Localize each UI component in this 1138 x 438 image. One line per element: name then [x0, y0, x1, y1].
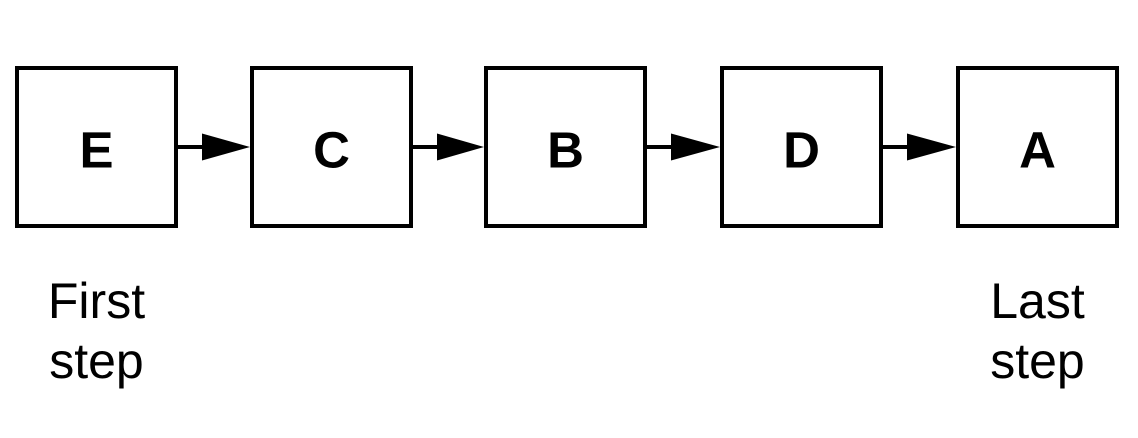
arrow B to D head	[671, 134, 720, 161]
arrow C to B wire	[413, 145, 440, 149]
node C box	[252, 68, 411, 226]
arrow D to A wire	[883, 145, 910, 149]
node B box	[486, 68, 645, 226]
svg-text:E: E	[79, 122, 113, 179]
arrow B to D wire	[647, 145, 674, 149]
node D box	[722, 68, 881, 226]
svg-text:step: step	[990, 333, 1085, 389]
arrow E to C wire	[178, 145, 205, 149]
arrow C to B head	[437, 134, 484, 161]
node E box	[17, 68, 176, 226]
node A box	[958, 68, 1117, 226]
svg-text:step: step	[49, 333, 144, 389]
svg-text:D: D	[783, 122, 820, 179]
svg-text:First: First	[48, 273, 145, 329]
arrow D to A head	[907, 134, 956, 161]
svg-text:Last: Last	[990, 273, 1085, 329]
svg-text:B: B	[547, 122, 584, 179]
arrow E to C head	[202, 134, 250, 161]
svg-text:A: A	[1019, 122, 1056, 179]
svg-text:C: C	[313, 122, 350, 179]
